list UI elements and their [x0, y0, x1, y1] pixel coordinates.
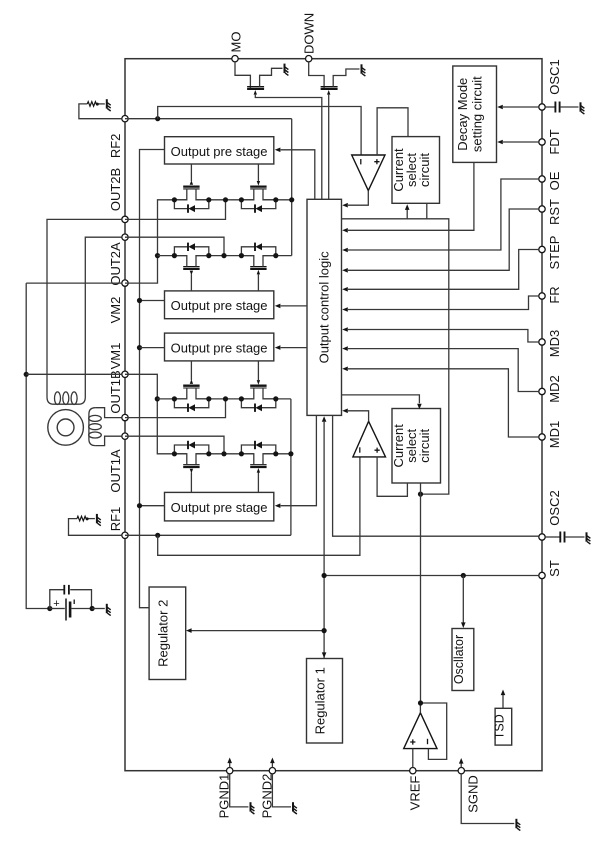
wire FDT into decay circuit	[503, 141, 539, 143]
ground at R1	[107, 99, 111, 111]
pin ST	[539, 572, 545, 578]
ground at C1	[581, 102, 585, 114]
ground PGND1	[251, 802, 255, 814]
pin MD1	[539, 434, 545, 440]
wire Q5 gate	[190, 361, 192, 380]
block: Current select circuit U6	[392, 409, 441, 484]
pin MD3	[539, 339, 545, 345]
svg-text:Output pre stage: Output pre stage	[171, 144, 268, 159]
pin FR	[539, 293, 545, 299]
node cap left	[47, 606, 52, 611]
wire RF2 to resistor R1	[79, 104, 122, 119]
pin MD2	[539, 388, 545, 394]
svg-text:FDT: FDT	[547, 129, 562, 154]
pin FDT	[539, 139, 545, 145]
wire Q10 gate from logic	[327, 90, 330, 95]
svg-text:setting circuit: setting circuit	[470, 76, 485, 152]
block: Regulator 2 U8	[149, 587, 186, 680]
wire Q6 gate	[257, 361, 259, 380]
svg-text:Output pre stage: Output pre stage	[171, 340, 268, 355]
svg-text:SGND: SGND	[465, 775, 480, 813]
transistor Q4 (OUT2A low side) with body diode D4	[250, 268, 266, 270]
capacitor C1 at OSC1	[545, 106, 555, 108]
wire MD3 to logic	[348, 330, 539, 343]
svg-text:Decay Mode: Decay Mode	[455, 78, 470, 151]
svg-text:Regulator 1: Regulator 1	[313, 667, 328, 734]
wire reference rail from logic to riser	[342, 219, 449, 494]
wire OUT1B pin to rail3	[125, 399, 226, 418]
svg-text:OUT1B: OUT1B	[108, 370, 123, 413]
pin VM1	[122, 371, 128, 377]
ground at R2	[97, 514, 101, 526]
pin OSC1	[539, 104, 545, 110]
svg-text:RF2: RF2	[108, 134, 123, 159]
block: Current select circuit U5	[392, 137, 440, 204]
wire Q4 gate	[257, 274, 259, 291]
pin RST	[539, 206, 545, 212]
wire OE to logic	[348, 179, 539, 250]
wire MD2 to logic	[348, 349, 539, 392]
wire OUT2A to winding L1	[85, 237, 122, 397]
svg-text:Regulator 2: Regulator 2	[156, 600, 171, 667]
wire rail3 segments	[157, 398, 187, 400]
wire rail2 segments	[158, 255, 187, 257]
wire VM supply rail	[26, 283, 47, 608]
wire Q9 gate from logic	[254, 90, 257, 95]
transistor Q5 (OUT1B high side) with body diode D5	[183, 385, 199, 387]
wire FR to logic	[348, 296, 539, 310]
wire RF2 pin line	[125, 118, 292, 120]
pin OUT2B	[122, 216, 128, 222]
wire trunk to Regulator 2	[192, 630, 325, 632]
wire Q7 gate	[190, 473, 192, 493]
svg-text:OSC1: OSC1	[547, 59, 562, 94]
pin OUT1B	[122, 414, 128, 420]
svg-text:circuit: circuit	[417, 428, 432, 462]
pin MO	[232, 56, 238, 62]
wire RF1 to comparator A2 minus	[158, 457, 360, 555]
svg-text:+: +	[53, 598, 59, 610]
svg-text:FR: FR	[547, 286, 562, 303]
block: TSD U12	[495, 708, 512, 745]
svg-text:MO: MO	[229, 32, 244, 53]
wire OUT2B to winding L1	[47, 219, 122, 397]
svg-text:OUT2A: OUT2A	[108, 242, 123, 286]
svg-text:Output control logic: Output control logic	[317, 251, 332, 364]
pin VREF	[410, 768, 416, 774]
wire STEP to logic	[348, 250, 539, 290]
wire SGND to ground	[461, 774, 514, 824]
wire PGND2 internal arrow	[271, 763, 273, 768]
svg-text:VREF: VREF	[407, 776, 422, 811]
wire PGND1 to ground	[230, 774, 249, 807]
svg-text:MD1: MD1	[547, 421, 562, 448]
transistor Q7 (OUT1A high side) with body diode D7	[183, 466, 199, 468]
pin VM2	[122, 280, 128, 286]
wire OUT2A pin to rail2	[125, 237, 224, 255]
wire A3 feedback loop	[421, 703, 447, 759]
transistor Q3 (OUT2A high side) with body diode D3	[183, 268, 199, 270]
svg-text:Output pre stage: Output pre stage	[171, 500, 268, 515]
pin STEP	[539, 246, 545, 252]
resistor R2 (RF1 sense)	[77, 516, 86, 521]
IC boundary	[125, 59, 542, 771]
block: Decay Mode setting circuit U7	[453, 66, 497, 162]
pin PGND2	[269, 768, 275, 774]
wire rail4 segments	[196, 453, 254, 455]
motor M	[48, 410, 84, 446]
svg-text:circuit: circuit	[417, 153, 432, 187]
svg-text:OSC2: OSC2	[547, 490, 562, 525]
wire OSC1 into decay circuit	[503, 106, 539, 108]
node cap right	[90, 606, 95, 611]
wire RF1 to resistor R2	[69, 519, 122, 536]
block: Output control logic U10	[307, 199, 342, 415]
wire logic to pre stage U1	[281, 150, 315, 200]
ground SGND	[516, 819, 520, 831]
transistor Q9 (MO output)	[247, 88, 264, 90]
ground at C2	[587, 532, 591, 544]
wire DOWN pin to Q10 drain	[309, 62, 324, 88]
wire Q8 gate	[257, 473, 259, 493]
svg-text:VM1: VM1	[108, 343, 123, 370]
transistor Q6 (OUT1B low side) with body diode D6	[250, 385, 266, 387]
pin OUT2A	[122, 234, 128, 240]
wire RF1 riser to rails	[290, 399, 292, 535]
wire ST trunk into logic	[323, 422, 325, 659]
wire pre stage U2 supply tap	[140, 300, 165, 302]
transistor Q2 (OUT2B low side) with body diode D2	[250, 185, 266, 187]
node VREF trunk at 494	[418, 492, 423, 497]
wire logic to pre stage U4	[281, 415, 317, 505]
wire logic to pre stage U2	[281, 305, 307, 307]
svg-text:ST: ST	[547, 560, 562, 577]
pin DOWN	[306, 56, 312, 62]
pin RF1	[122, 532, 128, 538]
svg-text:STEP: STEP	[547, 236, 562, 270]
wire PGND1 internal arrow	[229, 763, 231, 768]
wire rail1 OUT2B segment	[196, 199, 254, 201]
comparator A2	[353, 421, 386, 457]
winding L2 (phase 1)	[89, 408, 96, 446]
wire pre stage U4 supply tap	[140, 505, 165, 507]
wire rail into current select U5	[406, 210, 408, 219]
svg-text:RST: RST	[547, 199, 562, 225]
arrow into Regulator 1	[322, 652, 327, 658]
wire Q1 gate	[190, 164, 192, 181]
svg-text:Oscllator: Oscllator	[452, 635, 466, 684]
wire VM2 to supply rail	[26, 282, 122, 284]
comparator A1	[352, 155, 385, 191]
wire logic to current select U6 top	[342, 395, 420, 403]
wire OUT1A to winding L2	[95, 436, 121, 445]
wire OUT1A pin to rail4	[125, 436, 224, 454]
wire ST pin line	[324, 575, 539, 577]
pin PGND1	[227, 768, 233, 774]
svg-text:VM2: VM2	[108, 297, 123, 324]
wire A2 output to logic	[348, 411, 369, 422]
svg-text:OE: OE	[547, 171, 562, 190]
wire MD1 to logic	[348, 369, 539, 437]
wire SGND internal arrow	[460, 764, 462, 768]
block: Regulator 1 U9	[307, 659, 343, 744]
wire OUT2B pin to rail1	[125, 200, 226, 220]
wire Q9 source to ground	[260, 68, 283, 86]
pin OUT1A	[122, 433, 128, 439]
capacitor C3 (ceramic bypass)	[50, 590, 92, 609]
wire VREF pin to A3 plus	[412, 749, 414, 768]
capacitor C2 at OSC2	[545, 536, 560, 538]
wire decay circuit output to logic	[348, 162, 474, 230]
winding L1 (phase 2)	[47, 397, 85, 404]
pin RF2	[122, 116, 128, 122]
capacitor C4 (electrolytic)	[50, 608, 65, 610]
svg-text:OUT2B: OUT2B	[108, 168, 123, 211]
wire U5 bottom leg	[426, 203, 428, 219]
wire MO pin to Q9 drain	[235, 62, 250, 88]
wire VM1 riser	[125, 374, 187, 454]
wire rail1 RF2 segment	[263, 199, 292, 201]
transistor Q8 (OUT1A low side) with body diode D8	[250, 466, 266, 468]
resistor R1 (RF2 sense)	[87, 102, 96, 107]
wire VM1 branch	[26, 373, 122, 375]
wire OUT1B to winding L2	[95, 408, 121, 418]
block: Output pre stage U3 (OUT1B)	[165, 333, 274, 361]
ground near Q9	[285, 64, 289, 76]
pin OSC2	[539, 534, 545, 540]
wire ST to Oscillator	[462, 576, 464, 623]
wire A1 plus input from current select U5	[377, 108, 408, 155]
wire TSD output arrow	[502, 695, 504, 708]
wire Q3 gate	[190, 274, 192, 291]
op-amp A3 (VREF buffer)	[404, 713, 437, 749]
block: Output pre stage U4 (OUT1A)	[165, 492, 274, 521]
wire VM2 riser	[125, 200, 187, 283]
wire RST to logic	[348, 209, 539, 270]
svg-text:MD2: MD2	[547, 375, 562, 402]
wire OSC2 to logic	[333, 415, 539, 536]
block: Output pre stage U2 (OUT2A)	[165, 291, 274, 319]
ground near Q10	[362, 64, 366, 76]
ground PGND2	[293, 802, 297, 814]
wire VREF trunk	[420, 483, 422, 703]
wire A3 output node	[419, 703, 421, 713]
wire A1 output to logic	[348, 191, 368, 206]
wire pre stage supply line from Regulator 2	[140, 150, 165, 608]
wire logic to pre stage U3	[281, 347, 307, 349]
transistor Q1 (OUT2B high side) with body diode D1	[183, 185, 199, 187]
node rail2 left (VM2)	[155, 253, 160, 258]
svg-text:TSD: TSD	[493, 714, 507, 739]
block: Output pre stage U1 (OUT2B)	[165, 137, 274, 164]
pin OE	[539, 176, 545, 182]
svg-text:RF1: RF1	[108, 507, 123, 532]
ground at C4	[107, 604, 111, 616]
wire RF1 pin line	[125, 534, 291, 536]
transistor Q10 (DOWN output)	[321, 88, 338, 90]
wire Q10 source to ground	[333, 69, 359, 87]
wire PGND2 to ground	[272, 774, 291, 807]
wire Q2 gate	[257, 164, 259, 181]
wire RF2 to comparator A1 minus	[158, 107, 361, 156]
wire RF2 drop to rails	[291, 119, 293, 256]
svg-text:MD3: MD3	[547, 330, 562, 357]
svg-text:OUT1A: OUT1A	[108, 449, 123, 493]
block: Oscillator U11	[452, 629, 474, 691]
wire pre stage U3 supply tap	[137, 345, 142, 350]
pin SGND	[458, 768, 464, 774]
svg-text:DOWN: DOWN	[302, 13, 317, 54]
wire A2 plus input from current select U6	[377, 457, 407, 496]
svg-text:Output pre stage: Output pre stage	[171, 298, 268, 313]
